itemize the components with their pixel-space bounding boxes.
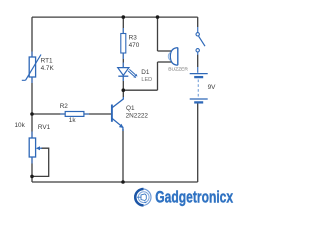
svg-text:4.7K: 4.7K [41, 65, 55, 72]
svg-text:10k: 10k [15, 122, 26, 129]
svg-text:LED: LED [141, 77, 152, 83]
svg-text:Gadgetronicx: Gadgetronicx [155, 188, 233, 207]
svg-text:D1: D1 [141, 69, 150, 76]
svg-text:BUZZER: BUZZER [168, 66, 188, 72]
svg-text:RV1: RV1 [38, 124, 51, 131]
svg-text:RT1: RT1 [41, 58, 53, 65]
svg-text:R3: R3 [129, 35, 138, 42]
svg-text:Q1: Q1 [126, 105, 135, 112]
svg-text:2N2222: 2N2222 [126, 112, 149, 119]
svg-text:470: 470 [129, 42, 140, 49]
svg-text:9V: 9V [208, 84, 217, 91]
svg-text:1k: 1k [69, 117, 77, 124]
svg-text:R2: R2 [60, 103, 69, 110]
